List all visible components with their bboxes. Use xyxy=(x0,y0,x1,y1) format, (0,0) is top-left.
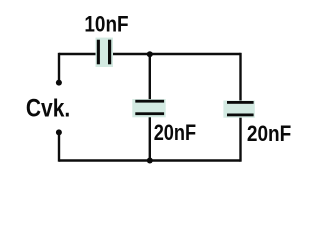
svg-text:20nF: 20nF xyxy=(247,122,291,147)
terminal dot lower left xyxy=(56,129,62,135)
wire top-left segment xyxy=(59,53,97,55)
svg-text:20nF: 20nF xyxy=(154,121,196,145)
svg-text:Cvk.: Cvk. xyxy=(26,94,70,122)
terminal dot upper left xyxy=(56,80,62,86)
capacitor C1 10nF (series, top) xyxy=(96,38,114,67)
capacitor C3 20nF (right branch) xyxy=(223,101,254,118)
junction node top xyxy=(147,51,153,57)
wire bottom xyxy=(59,159,241,161)
wire middle branch lower xyxy=(149,114,151,161)
wire right branch upper xyxy=(239,53,241,102)
wire top-right segment xyxy=(111,53,241,55)
wire left lower vertical xyxy=(58,133,60,162)
capacitor C2 20nF (middle branch) xyxy=(132,99,165,117)
svg-text:10nF: 10nF xyxy=(84,12,128,37)
wire middle branch upper xyxy=(149,54,151,101)
wire left upper vertical xyxy=(58,53,60,83)
wire right branch lower xyxy=(239,115,241,162)
junction node bottom xyxy=(147,158,153,164)
